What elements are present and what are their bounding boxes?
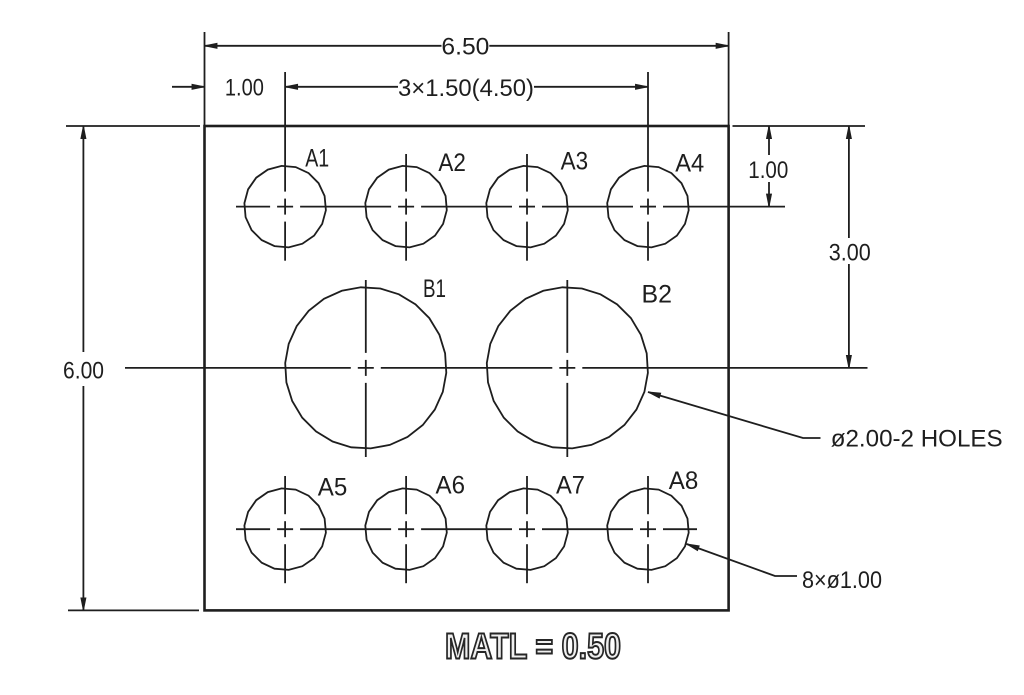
hole A3 [486, 166, 568, 248]
centerline vertical B1 [365, 280, 367, 457]
arrowhead 6.00 bottom [81, 598, 86, 611]
svg-text:ø2.00-2 HOLES: ø2.00-2 HOLES [831, 425, 1003, 452]
svg-text:3×1.50(4.50): 3×1.50(4.50) [398, 75, 534, 102]
svg-text:MATL = 0.50: MATL = 0.50 [445, 626, 621, 667]
arrowhead 3x1.50 left [285, 84, 298, 89]
svg-text:A8: A8 [669, 467, 699, 495]
arrowhead 1.00 right top [767, 126, 772, 139]
centerline horizontal row B1-B2 [125, 367, 868, 369]
hole A1 [244, 166, 326, 248]
svg-text:6.00: 6.00 [63, 357, 104, 384]
svg-text:A6: A6 [436, 472, 466, 500]
hole A5 [244, 488, 326, 570]
centerline horizontal row A1-A4 [236, 206, 785, 208]
extension line plate right top [728, 32, 730, 126]
dimension tail 1.00 top [172, 86, 205, 88]
hole A2 [365, 166, 447, 248]
dimension line 6.50 left part [205, 45, 442, 47]
leader line to A8 [687, 544, 797, 576]
svg-text:B2: B2 [642, 281, 673, 309]
hole A6 [365, 488, 447, 570]
dimension line 3x1.50 left part [285, 86, 398, 88]
centerline vertical A4 / extension line col 4 [647, 72, 649, 261]
centerline vertical A3 [526, 154, 528, 261]
svg-text:3.00: 3.00 [829, 240, 871, 267]
centerline vertical A7 [526, 476, 528, 583]
arrowhead 6.50 left [205, 43, 218, 48]
leader arrowhead A8 [687, 544, 700, 551]
svg-text:1.00: 1.00 [748, 157, 788, 184]
svg-text:A3: A3 [561, 148, 589, 176]
dimension line 3.00 lower [848, 264, 850, 368]
dimension line 6.00 upper part [82, 126, 84, 352]
centerline horizontal row A5-A8 [236, 528, 697, 530]
dimension line 1.00 right lower [768, 182, 770, 207]
hole A4 [607, 166, 689, 248]
extension line bottom left [68, 609, 199, 611]
svg-text:A2: A2 [438, 149, 466, 177]
svg-text:A4: A4 [675, 150, 704, 178]
svg-text:B1: B1 [423, 275, 446, 303]
centerline vertical A5 [284, 476, 286, 583]
centerline vertical A2 [405, 154, 407, 261]
svg-text:8×ø1.00: 8×ø1.00 [802, 567, 882, 594]
arrowhead 1.00 right bottom [767, 194, 772, 207]
centerline vertical A1 / extension line col 1 [284, 72, 286, 261]
hole B1 [285, 287, 446, 448]
dimension line 3.00 upper [848, 126, 850, 238]
arrowhead 1.00 top [192, 84, 205, 89]
extension line top right [733, 125, 866, 127]
centerline vertical A6 [405, 476, 407, 583]
leader line to B2 [648, 392, 821, 438]
leader arrowhead B2 [648, 392, 661, 398]
arrowhead 6.50 right [716, 43, 729, 48]
svg-text:A1: A1 [305, 145, 329, 173]
hole A7 [486, 488, 568, 570]
centerline vertical A8 [647, 476, 649, 583]
arrowhead 3x1.50 right [636, 84, 649, 89]
plate outline [205, 126, 729, 610]
centerline vertical B2 [566, 280, 568, 457]
svg-text:1.00: 1.00 [225, 75, 264, 102]
svg-text:A5: A5 [318, 473, 348, 501]
dimension line 1.00 right upper [768, 126, 770, 155]
extension line plate left top [204, 32, 206, 126]
dimension line 6.00 lower part [82, 386, 84, 610]
extension line top left [66, 125, 200, 127]
arrowhead 6.00 top [81, 126, 86, 139]
hole A8 [607, 488, 689, 570]
arrowhead 3.00 bottom [846, 355, 851, 368]
hole B2 [487, 287, 648, 448]
dimension line 6.50 right part [489, 45, 728, 47]
arrowhead 3.00 top [846, 126, 851, 139]
svg-text:A7: A7 [556, 472, 585, 500]
svg-text:6.50: 6.50 [441, 34, 489, 61]
dimension line 3x1.50 right part [534, 86, 648, 88]
